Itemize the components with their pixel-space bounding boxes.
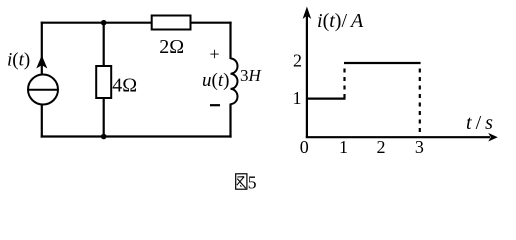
graph segment i=2 (344, 62, 421, 64)
graph y-axis arrowhead (303, 7, 312, 20)
wire middle branch upper (103, 23, 105, 66)
svg-text:4Ω: 4Ω (112, 74, 137, 96)
junction bottom node (101, 134, 107, 140)
polarity minus (210, 104, 220, 106)
graph segment i=1 (306, 97, 346, 99)
wire right upper segment (229, 22, 231, 59)
svg-text:i(t): i(t) (7, 50, 30, 71)
resistor 2Ω box (152, 16, 191, 30)
graph y-axis (306, 16, 308, 138)
graph dotted drop at t=3 (419, 69, 421, 137)
wire top-left segment (41, 22, 152, 24)
current source arrow (37, 57, 46, 68)
wire middle branch lower (103, 98, 105, 137)
svg-text:2: 2 (293, 51, 302, 71)
wire bottom (41, 135, 232, 137)
svg-text:0: 0 (300, 137, 309, 157)
wire top-right segment (191, 22, 232, 24)
figure caption 图5 glyph box (236, 174, 247, 189)
current source circle (28, 75, 58, 105)
wire right lower segment (229, 104, 231, 138)
graph dotted riser at t=1 (343, 69, 345, 99)
svg-text:5: 5 (248, 172, 257, 192)
graph x-axis (306, 136, 490, 138)
graph x-axis arrowhead (488, 133, 498, 142)
wire left upper segment (41, 22, 43, 75)
svg-text:3: 3 (415, 137, 424, 157)
svg-text:u(t): u(t) (202, 70, 229, 91)
svg-text:+: + (210, 44, 220, 64)
svg-text:2: 2 (377, 137, 386, 157)
svg-text:t / s: t / s (466, 112, 493, 134)
svg-text:1: 1 (339, 137, 348, 157)
current source chord (28, 89, 58, 91)
svg-text:3H: 3H (240, 66, 263, 85)
resistor 4Ω box (96, 66, 111, 98)
inductor L 3H coils (231, 59, 238, 105)
svg-text:2Ω: 2Ω (159, 36, 184, 58)
junction top node (101, 20, 107, 26)
svg-text:i(t)/ A: i(t)/ A (317, 10, 364, 32)
svg-text:1: 1 (293, 88, 302, 108)
wire left lower segment (41, 105, 43, 138)
